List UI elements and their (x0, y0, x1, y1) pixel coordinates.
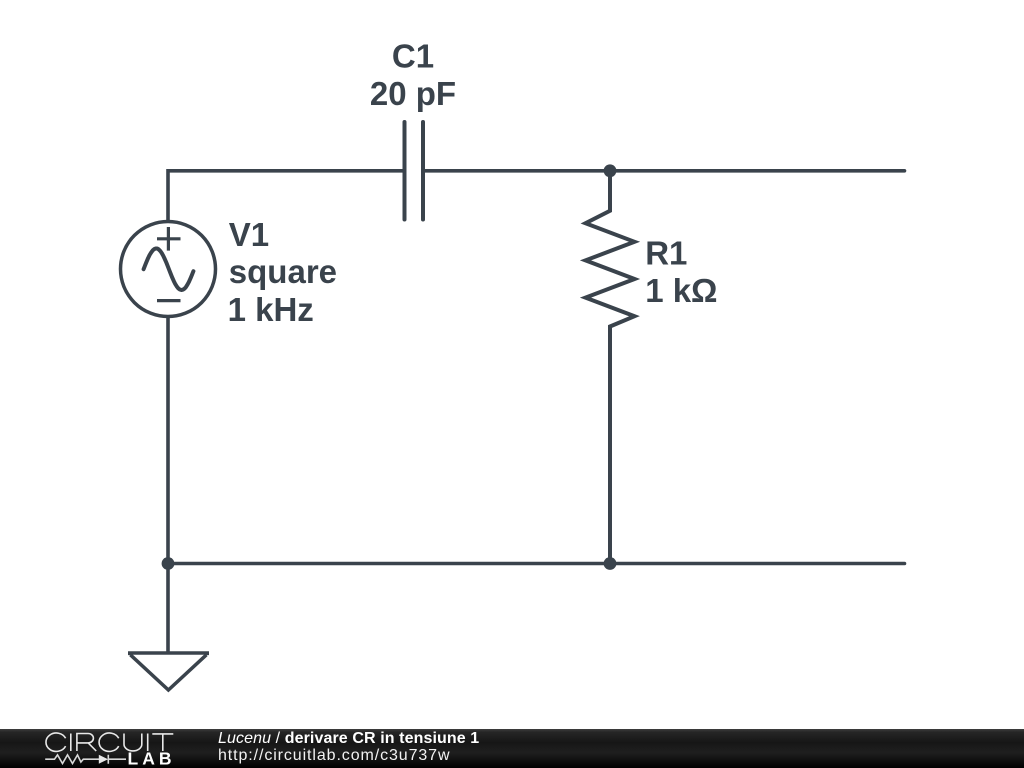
svg-text:LAB: LAB (128, 749, 176, 768)
svg-text:1 kHz: 1 kHz (228, 291, 314, 328)
svg-text:V1: V1 (229, 216, 269, 253)
svg-text:20 pF: 20 pF (370, 75, 456, 112)
svg-text:1 kΩ: 1 kΩ (645, 272, 717, 309)
svg-text:R1: R1 (645, 234, 687, 271)
svg-text:C1: C1 (392, 37, 434, 74)
svg-text:square: square (229, 253, 337, 290)
